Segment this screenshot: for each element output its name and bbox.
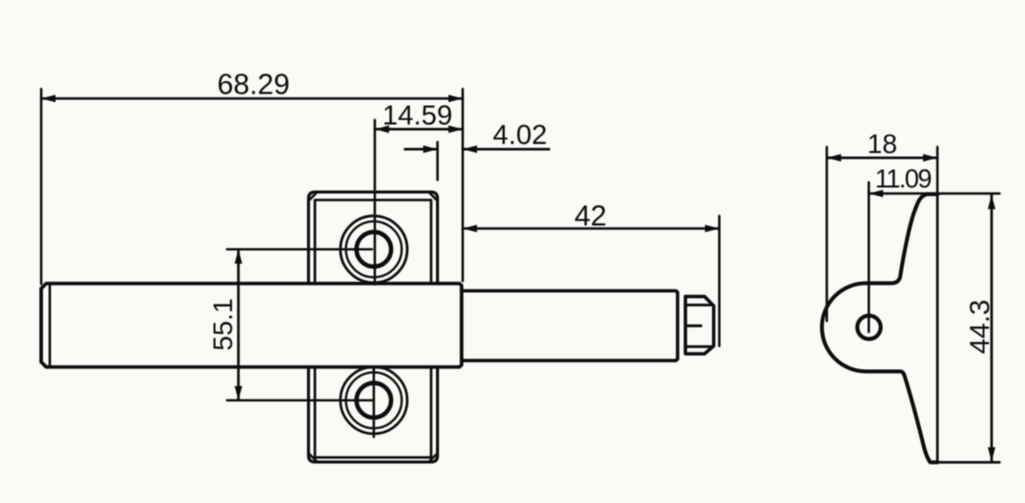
svg-text:44.3: 44.3 [964,300,995,355]
svg-text:55.1: 55.1 [208,298,238,351]
svg-text:42: 42 [574,200,606,232]
svg-text:68.29: 68.29 [217,69,290,101]
svg-text:11.09: 11.09 [875,164,932,194]
svg-text:4.02: 4.02 [493,119,548,150]
svg-text:14.59: 14.59 [382,100,452,131]
svg-text:18: 18 [867,129,897,159]
